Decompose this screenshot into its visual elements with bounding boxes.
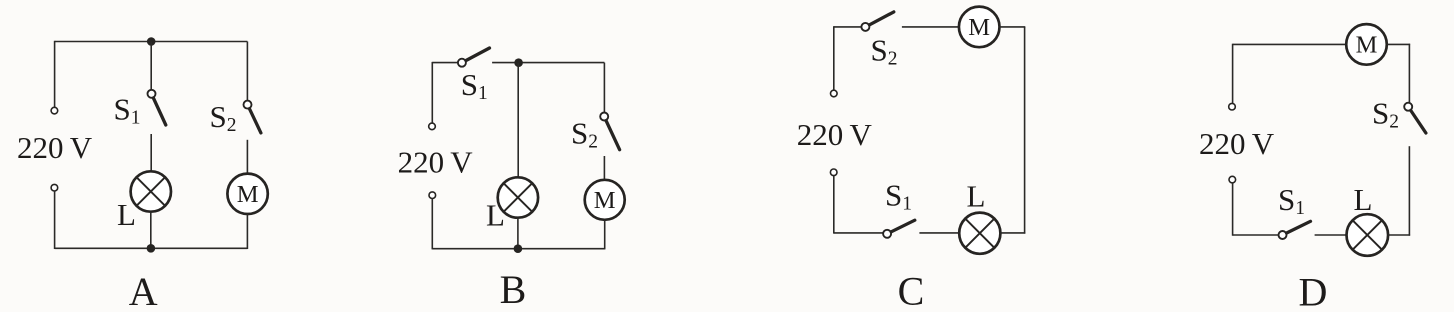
wire D bottom right	[1388, 234, 1410, 236]
terminal A source top	[51, 107, 58, 114]
terminal C source bottom	[830, 169, 837, 176]
wire A S2 branch upper	[246, 42, 248, 101]
wire B left lower	[431, 199, 433, 250]
wire D right lower	[1408, 146, 1410, 236]
svg-text:D: D	[1299, 270, 1328, 312]
wire A lamp to bottom	[150, 212, 152, 249]
svg-text:220 V: 220 V	[1199, 126, 1275, 161]
switch S1 (B)	[458, 48, 490, 67]
switch S1 (A)	[148, 90, 166, 125]
wire C bottom left	[834, 232, 883, 234]
svg-text:M: M	[968, 14, 990, 41]
wire A S1 to lamp	[150, 134, 152, 172]
wire A left lower	[54, 191, 56, 249]
lamp L (D)	[1347, 214, 1389, 256]
lamp L (A)	[131, 171, 171, 211]
terminal B source bottom	[429, 192, 436, 199]
svg-text:220 V: 220 V	[17, 130, 93, 165]
wire B motor to bottom	[604, 220, 606, 250]
svg-text:S1: S1	[461, 67, 488, 104]
node B top junction	[514, 58, 523, 67]
wire A S2 to motor	[246, 140, 248, 174]
wire D bottom left	[1233, 234, 1279, 236]
wire A S1 branch upper	[150, 42, 152, 91]
switch S2 (D)	[1404, 103, 1426, 133]
wire A top	[55, 41, 248, 43]
svg-text:M: M	[594, 187, 616, 214]
svg-text:220 V: 220 V	[398, 145, 474, 180]
svg-text:M: M	[237, 181, 259, 208]
terminal D source top	[1229, 103, 1236, 110]
svg-text:B: B	[500, 267, 527, 312]
wire C right	[1024, 27, 1026, 234]
terminal C source top	[831, 90, 838, 97]
node A bottom junction	[147, 244, 156, 253]
svg-text:L: L	[486, 198, 505, 233]
motor M (B)	[585, 180, 625, 220]
switch S1 (D)	[1279, 221, 1311, 239]
wire D bottom mid	[1315, 234, 1347, 236]
svg-text:S2: S2	[571, 116, 598, 153]
wire B lamp branch upper	[517, 63, 519, 178]
lamp L (B)	[498, 177, 538, 217]
wire A motor to bottom	[246, 214, 248, 249]
switch S2 (B)	[600, 113, 619, 150]
svg-text:S1: S1	[114, 92, 141, 129]
wire B top right	[492, 62, 604, 64]
wire B top left	[432, 62, 458, 64]
wire B S2 to motor	[603, 156, 605, 180]
wire C left lower	[833, 176, 835, 234]
svg-text:S1: S1	[1278, 182, 1305, 219]
wire B left upper	[431, 62, 433, 123]
wire B bottom	[432, 248, 605, 250]
wire A bottom	[55, 247, 248, 249]
svg-text:S1: S1	[885, 178, 912, 215]
node A top junction	[147, 37, 156, 46]
svg-text:220 V: 220 V	[797, 117, 873, 152]
wire A left upper	[54, 41, 56, 108]
svg-text:L: L	[967, 179, 986, 214]
svg-text:S2: S2	[210, 99, 237, 136]
svg-text:S2: S2	[871, 33, 898, 70]
wire B lamp to bottom	[517, 218, 519, 249]
wire D left upper	[1232, 44, 1234, 104]
svg-text:A: A	[129, 269, 158, 312]
svg-text:M: M	[1356, 31, 1378, 58]
wire C bottom right	[1000, 232, 1025, 234]
wire C top mid	[902, 26, 959, 28]
switch S1 (C)	[883, 220, 915, 238]
wire D right upper	[1408, 44, 1410, 103]
terminal B source top	[429, 123, 436, 130]
motor M (A)	[227, 174, 267, 214]
node B bottom junction	[514, 244, 523, 253]
wire D left lower	[1232, 183, 1234, 236]
terminal A source bottom	[51, 184, 58, 191]
wire C bottom mid	[919, 232, 959, 234]
svg-text:S2: S2	[1372, 96, 1399, 133]
wire C top left	[834, 26, 862, 28]
terminal D source bottom	[1229, 176, 1236, 183]
switch S2 (C)	[861, 12, 893, 31]
wire C top right	[1000, 26, 1026, 28]
svg-text:L: L	[1354, 182, 1373, 217]
svg-text:L: L	[117, 197, 136, 232]
motor M (D)	[1346, 24, 1387, 65]
wire B S2 branch upper	[603, 63, 605, 113]
svg-text:C: C	[898, 269, 925, 312]
wire C left upper	[833, 26, 835, 90]
lamp L (C)	[959, 213, 1000, 254]
motor M (C)	[959, 7, 1000, 48]
wire D top right	[1387, 43, 1410, 45]
wire D top left	[1233, 43, 1347, 45]
switch S2 (A)	[244, 101, 261, 133]
